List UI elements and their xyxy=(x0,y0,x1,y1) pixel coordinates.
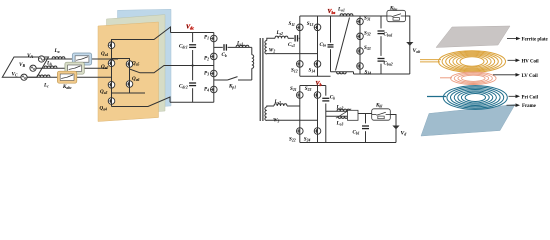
transistor Q_a4 xyxy=(108,98,115,105)
winding W_3 xyxy=(265,107,267,121)
Pri coil lead xyxy=(427,96,446,98)
wire primary bottom lead xyxy=(251,68,253,80)
wire Q clamp top xyxy=(112,59,130,94)
inductor L_c xyxy=(37,75,50,77)
transistor Q_a3 xyxy=(108,81,115,88)
capacitor C_b (primary) xyxy=(223,44,228,51)
node DC neutral xyxy=(192,64,194,66)
wire phase B xyxy=(36,67,107,69)
wire phase C xyxy=(27,76,111,78)
LV coil xyxy=(451,72,497,84)
panel blue (back) xyxy=(118,9,172,109)
wire diagonal link xyxy=(336,18,350,71)
wire C_bu column xyxy=(380,16,382,74)
capacitor C_dc1 xyxy=(189,42,196,50)
arrow ferrite plate xyxy=(507,38,517,40)
wire Q left column xyxy=(111,40,113,107)
grid plane parallelogram xyxy=(2,57,48,77)
HV coil leads xyxy=(420,59,441,61)
transformer core xyxy=(259,38,261,121)
wire L_o3 line xyxy=(326,115,348,117)
transistor S_31 xyxy=(357,18,364,25)
inductor on link xyxy=(337,72,347,74)
svg-text:Vb: Vb xyxy=(316,81,322,87)
wire W_2 bottom lead xyxy=(267,53,318,55)
wire V_d rail xyxy=(390,115,396,143)
svg-text:Frame: Frame xyxy=(522,104,537,109)
capacitor C_bu1 xyxy=(378,28,385,36)
frame plate xyxy=(421,105,515,137)
transistor S_34 xyxy=(357,63,364,70)
arrow HV coil xyxy=(508,59,517,61)
capacitor C_bs xyxy=(327,43,333,50)
capacitor C_b1 xyxy=(362,123,369,131)
source V_C xyxy=(21,74,27,80)
svg-text:Vbs: Vbs xyxy=(328,9,336,15)
svg-text:Vdc: Vdc xyxy=(186,25,194,31)
transistor S_24 xyxy=(314,128,321,135)
svg-text:LV Coil: LV Coil xyxy=(522,74,539,79)
transistor Q_a2 xyxy=(108,60,115,67)
wire lower tap xyxy=(214,79,228,81)
wire top bridge right leg xyxy=(317,16,319,76)
wire top bridge rails xyxy=(300,15,387,17)
inductor L_o2 xyxy=(337,109,350,111)
transistor Q_a5 xyxy=(126,61,133,68)
wire lower link with inductor xyxy=(331,71,354,73)
wire link down xyxy=(353,72,355,74)
wire Q bottom rail xyxy=(112,97,171,107)
switch K_bl xyxy=(372,109,391,120)
wire upper tap xyxy=(214,46,252,48)
wire L_o2 line xyxy=(326,110,348,112)
svg-text:HV Coil: HV Coil xyxy=(522,59,540,64)
inductor L_s1 xyxy=(236,45,249,47)
arrow Frame xyxy=(507,104,517,106)
wire P leg xyxy=(213,33,215,103)
source V_B xyxy=(30,65,36,71)
switch K_c (orange box) xyxy=(57,71,76,83)
winding W_2 xyxy=(265,41,267,55)
LV coil lead xyxy=(440,77,452,79)
coupling line xyxy=(336,109,351,118)
transistor S_21 xyxy=(296,92,303,99)
svg-text:Vd: Vd xyxy=(401,131,408,137)
capacitor C_bu2 xyxy=(378,56,385,64)
wire primary top lead xyxy=(251,47,253,54)
inductor L_o1 xyxy=(340,14,353,16)
HV coil xyxy=(439,51,506,73)
wire output right rail xyxy=(406,16,410,74)
svg-text:Ferrite plate: Ferrite plate xyxy=(522,38,549,43)
transistor Q_a6 xyxy=(126,81,133,88)
wire L_s2 to bridge xyxy=(288,37,300,39)
inductor L_s2 xyxy=(275,36,288,38)
svg-text:Vob: Vob xyxy=(413,48,421,54)
wire W_2 top lead xyxy=(267,38,275,40)
wire S_3 string xyxy=(359,16,361,74)
wire output bottom rail xyxy=(354,73,410,75)
switch K_a (blue box) xyxy=(72,53,91,65)
wire bottom bridge left leg xyxy=(299,86,301,143)
transistor P_3 xyxy=(210,70,217,77)
switch K_bu xyxy=(387,10,406,21)
wire L_s3 to bridge xyxy=(287,105,300,107)
arrow LV coil xyxy=(493,74,516,76)
panel sage (middle) xyxy=(107,15,166,115)
inductor L_s3 xyxy=(274,104,287,106)
inductor L_a xyxy=(52,57,65,59)
capacitor C_b (secondary) xyxy=(322,96,329,104)
wire DC top rail xyxy=(171,32,214,34)
wire W_3 bottom lead xyxy=(267,119,318,121)
wire DC bottom rail xyxy=(170,101,214,103)
capacitor C_s3 xyxy=(294,35,299,42)
winding W_1 primary xyxy=(252,55,254,69)
transistor S_13 xyxy=(314,24,321,31)
transistor S_23 xyxy=(314,92,321,99)
wire output line xyxy=(358,113,372,115)
transistor P_4 xyxy=(210,86,217,93)
transistor S_12 xyxy=(296,60,303,67)
arrow V_ob xyxy=(406,42,413,46)
inductor L_o3 xyxy=(338,116,348,118)
wire bottom bridge rails xyxy=(300,85,326,87)
wire C_bs column xyxy=(330,16,332,72)
switch K_p1 xyxy=(228,77,238,80)
arrow V_d xyxy=(392,126,399,130)
transistor P_2 xyxy=(210,53,217,60)
wire Q top rail xyxy=(112,27,171,45)
wire W_3 top lead xyxy=(267,106,274,107)
transistor S_32 xyxy=(357,33,364,40)
transistor S_22 xyxy=(296,128,303,135)
wire C_b column xyxy=(325,86,327,143)
transistor S_11 xyxy=(296,24,303,31)
ferrite plate xyxy=(436,26,510,48)
switch K_b (sage box) xyxy=(65,62,84,74)
transistor S_14 xyxy=(314,60,321,67)
svg-text:Pri Coil: Pri Coil xyxy=(522,95,539,100)
capacitor C_dc2 xyxy=(189,80,196,88)
wire C_b1 column xyxy=(365,114,367,143)
wire phase A xyxy=(45,58,119,60)
panel orange (front) xyxy=(98,22,159,122)
transistor P_1 xyxy=(210,35,217,42)
wire top bridge left leg xyxy=(299,16,301,76)
wire Q neutral tap xyxy=(130,66,214,73)
Pri coil xyxy=(443,86,507,110)
arrow Pri coil xyxy=(509,95,517,97)
wire DC cap column xyxy=(192,33,194,103)
transistor S_33 xyxy=(357,48,364,55)
wire Q clamp bottom stub xyxy=(130,92,146,94)
inductor L_b xyxy=(44,66,57,68)
wire bottom bridge right leg xyxy=(317,86,319,143)
source V_A xyxy=(38,56,44,62)
sensor box xyxy=(348,110,359,120)
transistor Q_a1 xyxy=(108,42,115,49)
